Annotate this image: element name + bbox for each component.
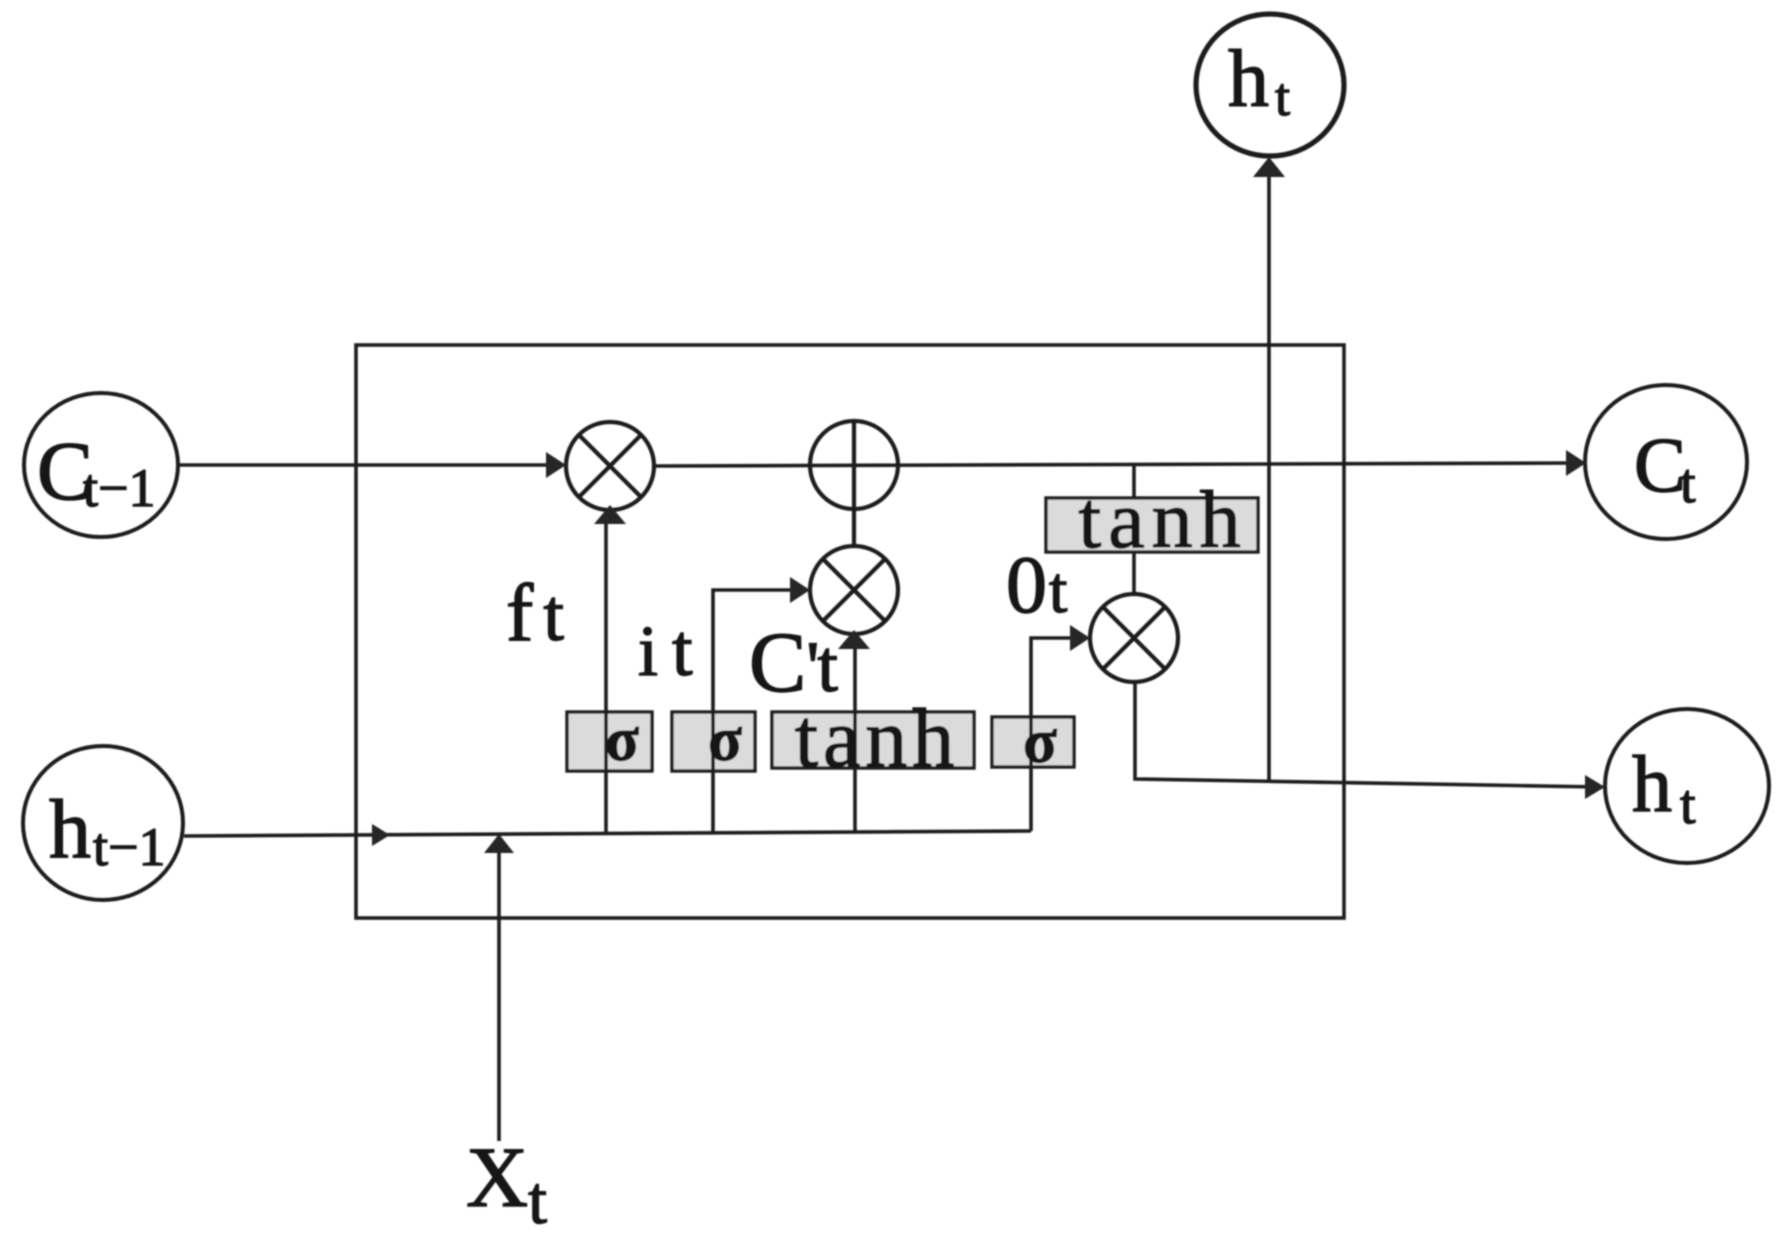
wire M3 down and right to h_t output [1135,682,1600,787]
gate box sigma S3 [992,717,1074,767]
arrow on h_t-1 bus [372,824,390,846]
arrow f_t into M1 bottom [594,505,626,524]
svg-text:C't: C't [749,614,838,710]
gate box sigma S1 [567,712,652,771]
node h_t right [1605,709,1769,863]
wire C_t-1 to M1 [178,463,556,467]
arrow X_t into bus [484,834,514,853]
arrow into C_t [1566,450,1586,476]
arrow C'_t into M2 bottom [838,630,870,649]
wire f_t sigma1 to M1 [604,516,608,833]
wire o_t sigma3 to M3 [1031,638,1082,831]
multiplier M2 [810,546,898,634]
svg-text:σ: σ [1023,708,1057,776]
multiplier M3 [1090,594,1178,682]
node h_t-1 [23,746,183,900]
svg-text:σ: σ [605,706,639,774]
wire i_t sigma2 to M2 [713,590,802,833]
wire tanh box to M3 [1132,551,1136,596]
wire X_t input [497,840,501,1141]
adder A1 [810,421,898,509]
svg-text:tanh: tanh [1078,474,1247,565]
arrow o_t into M3 left [1070,625,1090,651]
arrow into M1 left [546,452,566,478]
gate box sigma S2 [672,712,755,771]
multiplier M1 [566,422,654,510]
wire adder vertical bar down to M2 [852,421,856,547]
node C_t [1585,385,1747,539]
wire h_t-1 bus [184,831,1031,836]
wire C line down to tanh box [1132,464,1136,499]
gate boxes [567,498,1258,771]
arrow into h_t right [1585,775,1605,799]
node h_t top [1196,14,1344,156]
arrowheads [372,157,1605,853]
LSTM cell boundary [356,345,1344,918]
svg-text:σ: σ [708,706,742,774]
node C_t-1 [24,393,178,537]
arrow into h_t top [1253,157,1285,177]
wire M1 to adder to C_t [654,463,1578,466]
wire up to top h_t [1267,163,1271,781]
arrow i_t into M2 left [790,577,810,603]
activation box tanh top [1046,498,1258,552]
gate box tanh bottom [772,712,974,768]
wire C'_t tanh1 to M2 [853,640,857,833]
